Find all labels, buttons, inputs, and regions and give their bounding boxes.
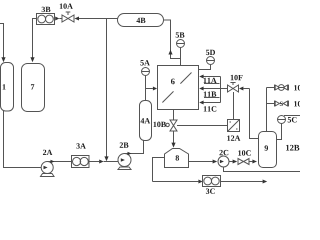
wire 3B suction from vessel 7 [33,19,37,59]
pump 2B [118,142,131,169]
wire 10F down to vessel 9 left [250,89,259,139]
wire 10B to vessel 8 [171,131,175,148]
blower 3B [37,7,55,25]
filter 12A [227,120,240,141]
wire 4B right bend down to box 6 [164,20,181,66]
wire to blower 3C [153,180,203,184]
wire 3B to valve 10A [55,17,62,21]
vessel 1 [1,63,14,112]
label 11C [204,106,217,111]
wire column 4A top stem [145,89,147,101]
instrument 5D [199,50,215,70]
wire 2C to valve 10C [229,160,237,164]
node arrow into 10F right [239,87,250,91]
valve 10F [228,75,243,92]
wire 2C drain to right edge [224,167,301,172]
label 11A [204,78,220,84]
wire feed into vessel 1 [0,24,4,59]
wire vessel 1 outlet to pump 2A [4,111,42,168]
column 4A [140,101,152,141]
wire 11B pipe into box 6 [199,87,227,91]
instrument 5C [277,116,301,140]
tank 4B [118,14,164,27]
node arrow into vessel 7 [30,57,34,62]
wire 10E branch [267,103,275,105]
blower 3C [203,176,221,194]
node arrow down at junction [104,156,108,161]
wire 3C outlet arrow [221,180,268,184]
valve 10C [238,150,251,164]
wire 11C pipe into box 6 [199,101,220,105]
node arrow into vessel 1 [1,57,5,62]
wire main right riser into vessel 9 top [266,88,268,132]
wire 10D branch [267,87,275,89]
instrument 5B [176,32,185,58]
wire 10F bottom stem to 12A [233,92,235,120]
instrument 5A [140,60,149,88]
wire 10B waist to 12A [177,125,228,127]
hopper vessel 8 [165,149,189,168]
label 11B [204,92,220,98]
vessel 7 [22,64,45,112]
wire vessel 8 right to pump 2C [189,160,218,164]
wire 4A branch into box 6 [146,87,158,91]
wire vessel 8 left outlet down [153,158,165,182]
node up arrow on riser [168,50,172,55]
vessel 9 [259,132,277,168]
pump 2C [218,150,229,167]
wire box 6 bottom to 10B [173,110,175,121]
wire 2B outlet to column 4A bottom [125,141,144,156]
wire 3A to junction and pump 2B [89,160,118,164]
reactor box 6 [158,66,199,110]
wire 10C into vessel 9 [249,160,257,164]
valve 10A [60,3,74,22]
node arrow into valve 10A right [75,17,80,21]
blower 3A [72,143,90,167]
wire bracket joining 11 pipes [220,77,222,103]
pump 2A [41,150,55,177]
wire 2A outlet to 3A [47,160,71,164]
wire junction riser down to pump row [106,19,108,157]
valve 10B [153,120,177,131]
wire 11A pipe into box 6 [199,75,220,79]
valve 10D [275,85,307,91]
wire top main line 10A to 4B [79,18,118,20]
label 12B [286,145,299,151]
valve 10E [275,101,307,107]
